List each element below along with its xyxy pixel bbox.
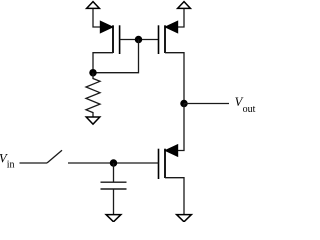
ground arrow (below capacitor) [106,215,121,222]
wire: node to capacitor top plate [113,163,115,182]
svg-text:out: out [243,104,256,115]
svg-text:in: in [7,160,15,171]
capacitor C (hold capacitor) [101,182,127,189]
wire: switch to M3 gate [68,162,159,164]
wire: capacitor bottom to ground [113,189,115,215]
wire: M2 drain down to Vout node [165,53,184,104]
wire: VDD right to M2 source [177,9,184,27]
node: hold capacitor top / M3 gate [110,159,118,167]
wire: Vout node to label [184,103,229,105]
node: Vout junction [180,100,188,108]
wire: M1 drain down to node A [93,53,113,73]
vdd symbol (left, above M1) [87,2,100,9]
pmos M1 (diode-connected mirror device, gate on right) [100,20,120,54]
label Vout [235,95,256,115]
label Vin [0,152,14,171]
wire: M3 drain to ground [165,178,184,215]
node: gate junction of M1/M2 [135,36,143,44]
vdd symbol (right, above M2) [178,2,191,9]
ground / vss arrow below resistor [86,117,100,124]
pmos M2 (mirror output device, gate on left) [159,20,179,54]
wire: Vin to switch [20,162,48,164]
wire: Vout node down to M3 source [177,104,184,151]
ground arrow (right, below M3) [177,215,192,222]
resistor R (bias-setting) [86,73,100,117]
node A: M1 drain / gate tie / resistor top [89,69,97,77]
wire: M1 gate to M2 gate (common gate lead) [120,39,159,41]
pmos M3 (source follower, gate on left) [159,144,179,179]
wire: diode connection node A to gate junction [93,40,139,73]
wire: VDD left to M1 source [93,9,101,27]
switch S (open, sampling) [47,150,62,163]
